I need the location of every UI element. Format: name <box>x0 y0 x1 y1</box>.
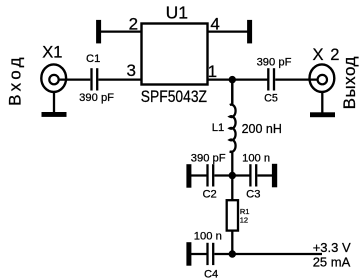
svg-text:+3.3 V: +3.3 V <box>313 240 351 255</box>
wire C4 to node C <box>214 253 232 255</box>
svg-text:X1: X1 <box>42 43 62 61</box>
wire ground to C2 <box>190 174 208 176</box>
svg-text:SPF5043Z: SPF5043Z <box>141 88 207 107</box>
wire C1 to pin 3 <box>98 78 141 80</box>
wire pin 1 to node A <box>208 78 269 80</box>
wire C2 to node B <box>214 174 250 176</box>
svg-text:390 pF: 390 pF <box>257 56 292 68</box>
wire X2 to ground <box>321 92 323 113</box>
svg-text:L1: L1 <box>212 122 224 134</box>
svg-text:U1: U1 <box>166 2 188 22</box>
svg-text:390 pF: 390 pF <box>79 92 114 104</box>
ground at pin 2 <box>96 20 101 44</box>
svg-text:C3: C3 <box>246 189 260 201</box>
svg-text:Выход: Выход <box>340 56 359 109</box>
ground at C3 <box>272 164 277 188</box>
svg-text:100 n: 100 n <box>242 152 270 164</box>
svg-text:390 pF: 390 pF <box>191 153 226 165</box>
svg-text:Вход: Вход <box>5 54 24 106</box>
connector X1 <box>41 64 66 92</box>
connector X2 <box>310 64 335 92</box>
svg-text:X 2: X 2 <box>312 46 340 64</box>
ground at pin 4 <box>247 20 252 44</box>
capacitor C1 <box>92 68 98 90</box>
resistor R1 <box>227 200 238 230</box>
svg-text:25 mA: 25 mA <box>313 255 351 270</box>
inductor L1 <box>230 80 236 152</box>
node A junction dot <box>229 76 236 83</box>
wire node B to R1 <box>231 176 233 201</box>
wire node A to L1 <box>231 80 233 105</box>
svg-text:C1: C1 <box>86 53 100 65</box>
ground at X1 <box>42 112 67 117</box>
capacitor C2 <box>208 164 214 186</box>
svg-text:100 n: 100 n <box>194 230 222 242</box>
wire X1 to ground <box>53 92 55 113</box>
wire pin 4 to ground <box>208 30 249 32</box>
node B junction dot <box>229 172 236 179</box>
op-amp U1 body <box>142 24 208 85</box>
svg-text:C5: C5 <box>264 93 278 105</box>
wire ground to C4 <box>190 253 208 255</box>
wire L1 to node B <box>231 152 233 176</box>
wire C5 to X2 <box>275 78 317 80</box>
svg-text:12: 12 <box>240 215 248 224</box>
node C junction dot <box>229 250 236 257</box>
svg-text:3: 3 <box>127 61 136 80</box>
capacitor C5 <box>268 68 274 90</box>
capacitor C3 <box>250 164 256 186</box>
wire C3 to ground <box>257 174 272 176</box>
svg-text:1: 1 <box>208 62 217 81</box>
wire X1 to C1 <box>59 78 91 80</box>
ground at X2 <box>310 112 335 117</box>
svg-text:2: 2 <box>129 14 138 33</box>
wire R1 to node C <box>231 231 233 254</box>
ground at C4 <box>186 242 191 266</box>
capacitor C4 <box>208 243 214 265</box>
ground at C2 <box>186 164 191 188</box>
wire node C to supply <box>232 253 322 255</box>
svg-text:C4: C4 <box>204 269 218 280</box>
svg-text:C2: C2 <box>202 189 216 201</box>
svg-text:200 nH: 200 nH <box>242 122 282 136</box>
wire ground to pin 2 <box>100 30 142 32</box>
